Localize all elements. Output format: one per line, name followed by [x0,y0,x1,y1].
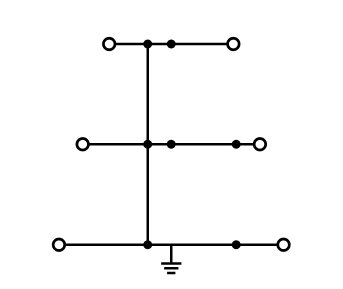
terminal bottom-left [53,239,65,251]
wire middle level [88,143,254,146]
junction top jumper [143,40,152,49]
wire top level [115,43,228,46]
terminal bottom-right [278,239,290,251]
junction top tap [167,40,176,49]
terminal middle-right [254,138,266,150]
junction middle tap [167,140,176,149]
junction middle jumper [143,140,152,149]
junction bottom jumper [143,240,152,249]
terminal top-right [228,38,240,50]
junction middle right [232,140,241,149]
junction bottom right [232,240,241,249]
terminal middle-left [77,138,89,150]
terminal top-left [103,38,115,50]
wire bottom level [65,244,278,247]
ground [161,245,181,273]
wire vertical jumper [147,44,150,245]
